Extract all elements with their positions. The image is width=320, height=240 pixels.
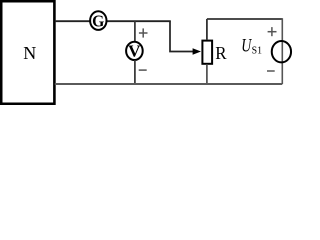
- svg-text:N: N: [23, 43, 36, 63]
- wire right vertical: [281, 18, 283, 84]
- galvanometer G: [90, 11, 106, 30]
- plus sign V: [139, 28, 148, 37]
- arrowhead pointing at R: [193, 48, 201, 55]
- plus sign source: [268, 27, 277, 36]
- network box N: [1, 1, 54, 104]
- minus sign V: [139, 69, 147, 71]
- bottom wire: [55, 83, 282, 85]
- wire corner down to arrow: [170, 21, 193, 51]
- svg-text:V: V: [128, 42, 141, 61]
- wire N to G: [55, 20, 91, 22]
- svg-text:G: G: [92, 11, 104, 30]
- wire G to corner: [106, 20, 171, 22]
- wire V branch top: [134, 20, 136, 42]
- voltage source US1: [272, 41, 291, 62]
- resistor R: [202, 41, 212, 64]
- wire V branch bottom: [134, 60, 136, 84]
- wire top right loop: [207, 18, 282, 20]
- minus sign source: [267, 70, 275, 72]
- wire R bottom: [206, 64, 208, 84]
- wire R top riser: [206, 19, 208, 40]
- svg-text:U: U: [241, 35, 252, 56]
- svg-text:S1: S1: [252, 45, 262, 56]
- voltmeter V: [126, 42, 143, 60]
- svg-text:R: R: [215, 43, 226, 63]
